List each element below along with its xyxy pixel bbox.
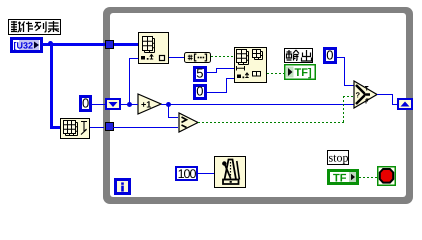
svg-text:0: 0 (82, 96, 89, 111)
left shift register (105, 98, 121, 110)
right shift register (397, 98, 413, 110)
control terminal [U32] array (10, 37, 43, 53)
wait until next ms multiple node (metronome) (214, 156, 246, 188)
array subset node (234, 47, 267, 83)
wire: greater-equal out (dotted) (198, 122, 344, 123)
wire: boolean array out (dotted) (211, 56, 235, 57)
表 (48, 21, 59, 32)
junction dot before +1 (127, 102, 132, 107)
array size node (60, 118, 90, 139)
wire: 0 to subset length (207, 92, 227, 93)
wire: stop to conditional terminal (dotted) (359, 177, 378, 178)
wire: index (i) up into index array (129, 58, 130, 105)
列 (35, 23, 42, 31)
wire: U32 array out (thick) (42, 43, 106, 46)
wire: array branch down (50, 44, 53, 127)
wire: tunnel to greater-equal (113, 127, 178, 128)
tunnel (array size in, lower) (105, 122, 114, 131)
tunnel (array in, top) (105, 40, 114, 49)
iteration terminal i (114, 178, 131, 195)
輸 (287, 50, 292, 60)
wire: array size out (90, 127, 104, 128)
label stop (327, 150, 349, 165)
junction on array wire (48, 41, 53, 46)
loop conditional terminal (stop sign) (377, 166, 396, 186)
wire: element out (169, 57, 184, 58)
svg-text:100: 100 (178, 167, 197, 181)
wire: subset out to TF indicator (dotted) (267, 73, 285, 74)
constant 0 (length) (193, 84, 207, 100)
constant 5 (193, 66, 207, 82)
greater or equal node (178, 112, 199, 133)
wire: init to left shift register (91, 104, 106, 105)
wire: 5 to subset index (207, 72, 217, 73)
wire: 100 to wait node (198, 173, 214, 174)
svg-text:0: 0 (196, 84, 203, 99)
constant 100 (175, 166, 198, 181)
select node (353, 80, 378, 109)
wire: branch down to greater-equal (168, 104, 169, 118)
junction dot after +1 (166, 102, 171, 107)
出 (302, 50, 312, 61)
wire: tunnel to index-array (114, 43, 138, 46)
while loop border frame (103, 7, 413, 204)
wire: into array-size node (50, 126, 60, 129)
indicator terminal [TF] boolean array (284, 64, 316, 80)
動 (11, 21, 17, 32)
svg-text:5: 5 (196, 66, 203, 81)
svg-text:[U32: [U32 (14, 41, 34, 51)
wire: shift reg to +1 (121, 104, 138, 105)
index array node (138, 32, 169, 64)
svg-text:TF: TF (333, 172, 347, 184)
label 輸出 (output) (284, 48, 313, 63)
constant 0 (shift register init) (79, 95, 92, 112)
wire: +1 out (161, 104, 354, 105)
control terminal stop TF (327, 169, 359, 185)
作 (22, 22, 34, 33)
wire: select out to right shift register (377, 94, 393, 95)
wire: 0 to select true input (337, 57, 345, 58)
svg-text:?: ? (356, 91, 361, 100)
svg-text:+1: +1 (141, 100, 151, 110)
svg-text:0: 0 (326, 48, 333, 63)
svg-text:stop: stop (329, 151, 349, 165)
label 動作列表 (action list) (8, 19, 61, 35)
increment +1 node (137, 93, 162, 115)
number to boolean array node (184, 51, 211, 63)
constant 0 (top right) (323, 47, 337, 64)
svg-text:TF]: TF] (295, 67, 312, 79)
